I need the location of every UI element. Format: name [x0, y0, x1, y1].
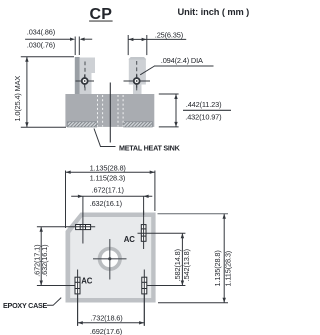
svg-text:AC: AC: [124, 235, 135, 244]
svg-text:1.115(28.3): 1.115(28.3): [90, 173, 126, 182]
svg-text:.672(17.1): .672(17.1): [92, 185, 124, 194]
svg-text:.732(18.6): .732(18.6): [90, 314, 122, 323]
svg-text:.632(16.1): .632(16.1): [40, 245, 49, 277]
svg-text:Unit: inch ( mm ): Unit: inch ( mm ): [178, 7, 250, 17]
svg-text:.542(13.8): .542(13.8): [182, 249, 191, 281]
svg-text:.442(11.23): .442(11.23): [186, 100, 222, 109]
svg-text:.692(17.6): .692(17.6): [90, 327, 122, 335]
svg-text:.582(14.8): .582(14.8): [173, 249, 182, 281]
svg-text:.632(16.1): .632(16.1): [90, 199, 122, 208]
svg-text:.034(.86): .034(.86): [27, 28, 55, 37]
svg-text:.25(6.35): .25(6.35): [155, 30, 183, 39]
svg-text:1.115(28.3): 1.115(28.3): [224, 251, 233, 287]
svg-text:1.0(25.4) MAX: 1.0(25.4) MAX: [13, 76, 22, 122]
svg-text:1.135(28.8): 1.135(28.8): [90, 163, 126, 172]
svg-text:.094(2.4) DIA: .094(2.4) DIA: [161, 56, 203, 65]
svg-text:.432(10.97): .432(10.97): [185, 113, 221, 122]
svg-text:1.135(28.8): 1.135(28.8): [213, 250, 222, 286]
svg-text:METAL HEAT SINK: METAL HEAT SINK: [119, 143, 181, 152]
svg-text:AC: AC: [81, 277, 92, 286]
svg-text:EPOXY CASE: EPOXY CASE: [3, 301, 48, 310]
svg-text:.030(.76): .030(.76): [27, 41, 55, 50]
